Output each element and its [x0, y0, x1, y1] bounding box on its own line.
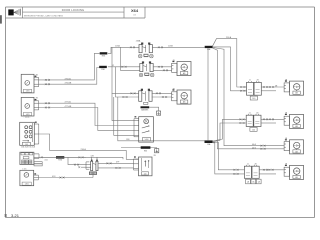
svg-text:1405: 1405 [25, 184, 29, 186]
svg-text:1405: 1405 [26, 91, 30, 93]
svg-text:477 AB: 477 AB [65, 105, 72, 108]
svg-text:12: 12 [112, 65, 114, 67]
svg-text:140: 140 [252, 98, 255, 100]
svg-text:236 A: 236 A [81, 148, 87, 151]
svg-text:21: 21 [249, 80, 251, 82]
svg-text:20A 30A 15A 10A: 20A 30A 15A 10A [21, 146, 36, 149]
svg-text:R36: R36 [58, 160, 61, 162]
svg-text:8: 8 [4, 213, 7, 218]
svg-text:MASSES: MASSES [141, 108, 149, 111]
svg-text:SERRURES PTES AV - LARV COND P: SERRURES PTES AV - LARV COND PASS [24, 14, 64, 17]
svg-text:X64: X64 [131, 8, 139, 13]
svg-text:140: 140 [252, 129, 255, 131]
svg-text:126A: 126A [115, 44, 120, 47]
svg-text:2B2: 2B2 [91, 173, 94, 175]
svg-text:DOOR LOCKING: DOOR LOCKING [62, 8, 85, 12]
svg-text:236 A: 236 A [226, 36, 232, 39]
svg-text:1405: 1405 [26, 114, 30, 116]
svg-text:- 14 05 -: - 14 05 - [24, 117, 31, 119]
svg-text:1406: 1406 [145, 139, 149, 141]
svg-text:3-21: 3-21 [11, 213, 20, 218]
svg-text:R36: R36 [101, 69, 104, 71]
svg-text:126B: 126B [168, 45, 173, 47]
svg-text:140: 140 [144, 173, 147, 175]
svg-text:477 AJ: 477 AJ [65, 101, 71, 104]
svg-text:123: 123 [133, 15, 136, 17]
svg-text:21: 21 [249, 112, 251, 114]
svg-text:140: 140 [25, 144, 28, 146]
svg-text:476 AJ: 476 AJ [65, 77, 71, 80]
svg-text:R36: R36 [102, 56, 105, 58]
svg-text:1 405: 1 405 [22, 168, 27, 170]
svg-text:476 AB: 476 AB [65, 82, 72, 85]
svg-text:236A: 236A [136, 40, 141, 43]
svg-text:21: 21 [247, 163, 249, 165]
svg-text:R36: R36 [144, 150, 147, 152]
